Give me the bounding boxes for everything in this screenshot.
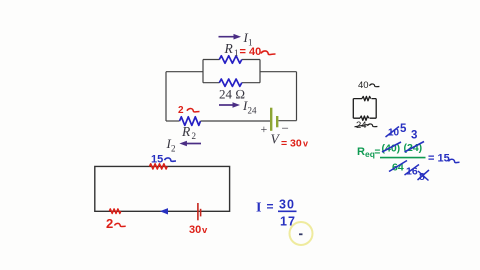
svg-text:3: 3 [411, 130, 417, 142]
blue slash through (40) [382, 142, 401, 152]
blue slash through 64 [389, 161, 407, 172]
svg-text:R: R [224, 41, 234, 56]
svg-text:+: + [261, 122, 268, 136]
svg-text:eq: eq [365, 149, 375, 159]
svg-text:=: = [267, 200, 274, 214]
stray stroke through 24 label [355, 125, 368, 127]
right mini-circuit top zigzag [362, 96, 371, 100]
svg-text:=: = [375, 147, 381, 158]
svg-text:= 30: = 30 [281, 138, 302, 150]
green fraction bar [380, 157, 426, 159]
svg-text:R: R [357, 146, 365, 158]
resistor R1 zigzag [219, 56, 241, 63]
svg-text:2: 2 [171, 144, 176, 154]
svg-text:2: 2 [178, 105, 184, 116]
wire bottom middle segment [201, 120, 271, 122]
lower battery short plate (red) [200, 209, 202, 217]
svg-text:17: 17 [280, 215, 296, 229]
current arrowhead on bottom wire (blue) [160, 208, 168, 214]
blue slash through (24) [405, 142, 425, 153]
handwritten omega squiggle (red) [261, 51, 276, 55]
svg-text:2: 2 [106, 216, 113, 231]
svg-text:I: I [256, 201, 261, 216]
wire left vertical (top circuit) [165, 72, 167, 121]
cursor halo (yellow circle) [290, 222, 313, 245]
right mini-circuit bottom zigzag [360, 116, 369, 120]
lower 2 ohm resistor zigzag (red) [109, 209, 121, 214]
arrow I2 (pointing left) [179, 141, 201, 147]
lower circuit rectangle [95, 166, 230, 211]
parallel box outline [203, 60, 260, 83]
svg-text:= 40: = 40 [240, 46, 262, 58]
svg-text:30: 30 [279, 198, 295, 212]
svg-text:2: 2 [192, 131, 197, 141]
svg-text:v: v [303, 139, 308, 149]
arrow I1 [219, 34, 242, 40]
svg-text:1: 1 [234, 48, 239, 58]
wire bottom right segment [279, 120, 297, 122]
svg-text:40: 40 [358, 80, 369, 91]
wire right vertical [296, 72, 298, 121]
arrow I24 [219, 102, 240, 108]
right mini-circuit box [353, 99, 376, 119]
resistor R2 zigzag [180, 117, 201, 126]
svg-text:24 Ω: 24 Ω [219, 87, 245, 102]
svg-text:−: − [282, 121, 289, 136]
svg-text:= 15: = 15 [428, 153, 450, 165]
cursor dot [299, 233, 303, 235]
svg-text:5: 5 [400, 123, 407, 135]
wire right feed [260, 71, 297, 73]
battery V long plate [270, 108, 272, 131]
svg-text:R: R [181, 124, 191, 139]
lower battery long plate (red) [197, 203, 199, 220]
svg-text:30: 30 [189, 224, 201, 236]
wire bottom left segment [166, 120, 180, 122]
svg-text:v: v [202, 225, 208, 236]
svg-text:15: 15 [151, 154, 163, 166]
resistor 24ohm zigzag [219, 79, 241, 86]
battery V short plate [276, 116, 278, 127]
lower 15 ohm resistor zigzag (red) [150, 164, 168, 169]
wire left feed to parallel box [166, 71, 203, 73]
fraction bar [278, 210, 297, 212]
svg-text:24: 24 [248, 106, 258, 116]
